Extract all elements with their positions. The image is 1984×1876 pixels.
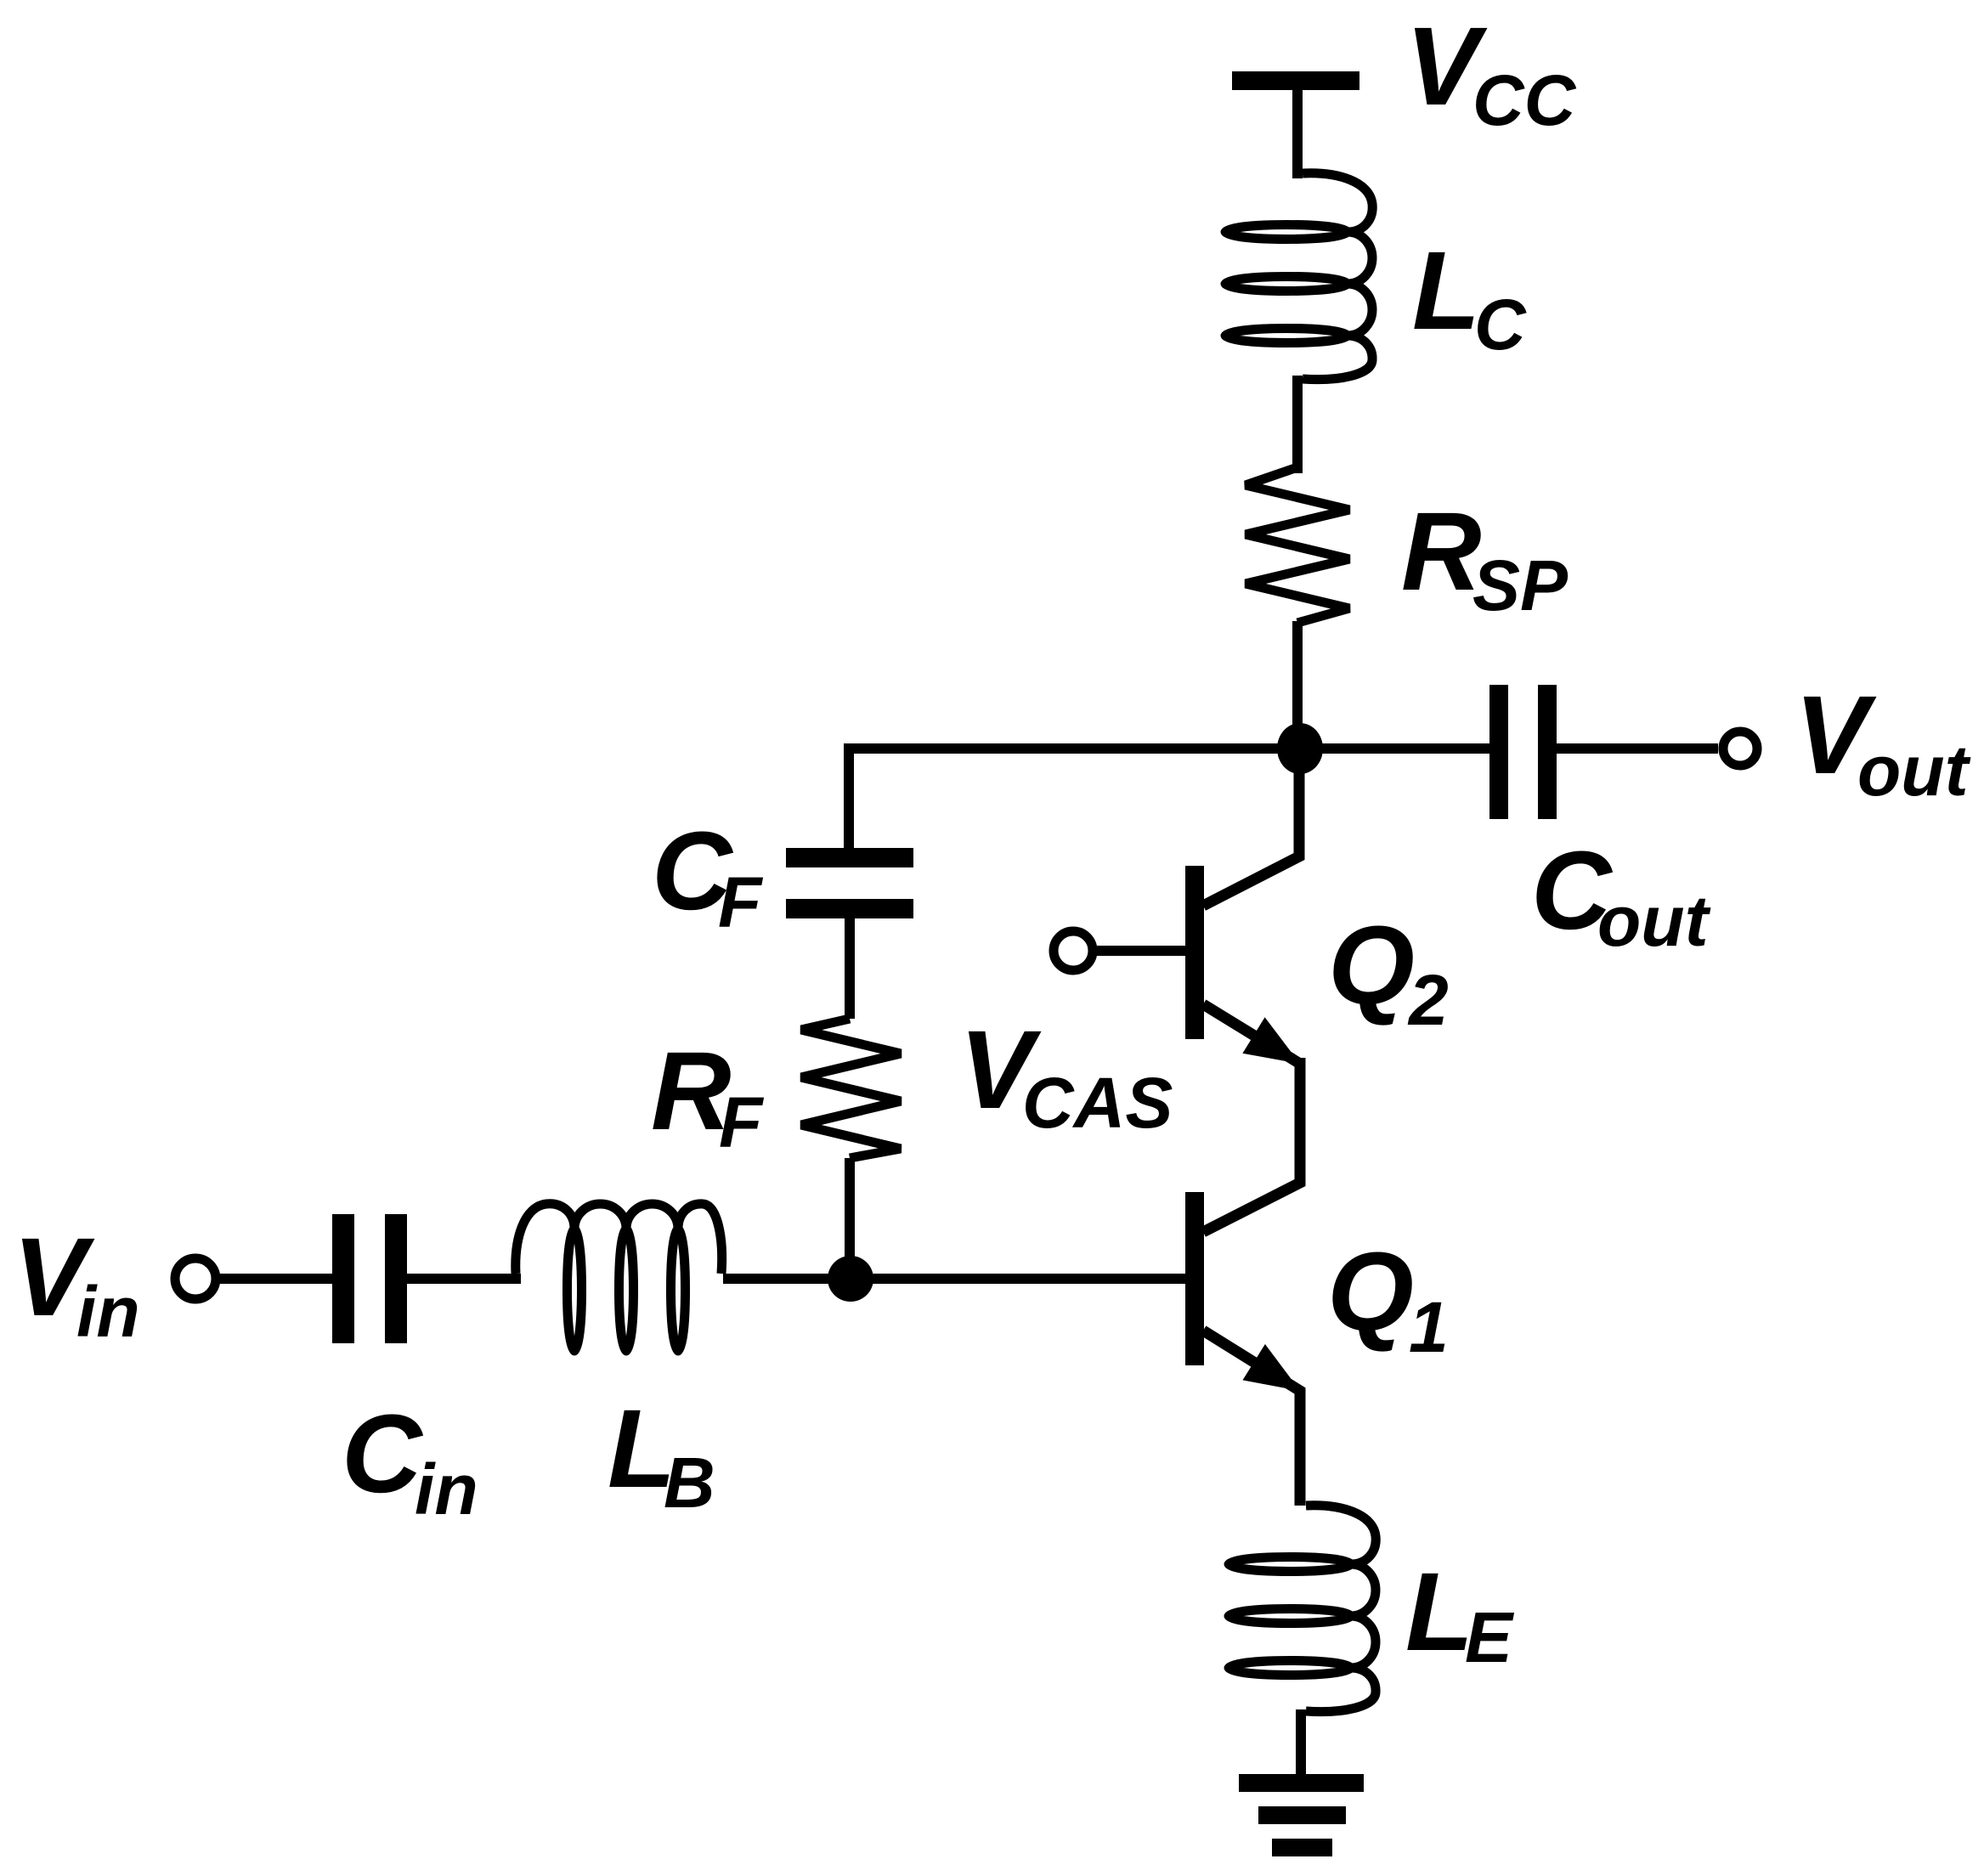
terminal VOUT: [1723, 732, 1757, 766]
svg-text:out: out: [1597, 881, 1711, 961]
svg-text:out: out: [1857, 731, 1971, 811]
svg-text:B: B: [664, 1443, 715, 1523]
capacitor CIN: [332, 1214, 407, 1343]
svg-text:F: F: [718, 862, 764, 942]
wire: [1292, 621, 1303, 749]
node: output junction: [1277, 723, 1323, 774]
resistor RF: [801, 1019, 901, 1158]
wire: [1296, 1709, 1306, 1776]
wire: [845, 918, 855, 1019]
inductor LE: [1229, 1506, 1376, 1712]
svg-text:CC: CC: [1472, 60, 1577, 140]
capacitor CF: [786, 848, 913, 918]
ground: [1239, 1774, 1364, 1856]
svg-text:F: F: [719, 1082, 765, 1162]
svg-text:in: in: [76, 1272, 140, 1352]
svg-text:Q: Q: [1328, 902, 1415, 1027]
wire: [1557, 743, 1718, 754]
svg-text:SP: SP: [1472, 545, 1569, 625]
capacitor COUT: [1489, 685, 1557, 819]
terminal VCAS: [1054, 931, 1093, 970]
svg-text:CAS: CAS: [1022, 1063, 1173, 1143]
wire: [1292, 88, 1303, 178]
svg-text:C: C: [1474, 285, 1527, 364]
svg-text:2: 2: [1407, 960, 1449, 1040]
inductor LC: [1225, 173, 1372, 380]
wire: [723, 1274, 1185, 1284]
terminal VIN: [175, 1258, 216, 1299]
svg-text:R: R: [1401, 489, 1482, 613]
svg-text:1: 1: [1409, 1287, 1449, 1367]
transistor Q2: [1185, 749, 1300, 1064]
svg-text:Q: Q: [1327, 1229, 1414, 1353]
wire: [845, 1158, 855, 1279]
svg-text:E: E: [1465, 1597, 1515, 1677]
wire: [218, 1274, 332, 1284]
svg-text:in: in: [415, 1449, 478, 1529]
node: input junction: [828, 1256, 873, 1302]
transistor Q1: [1185, 1058, 1300, 1506]
power rail VCC: [1232, 71, 1359, 90]
wire: [849, 749, 1489, 850]
svg-text:L: L: [1405, 1549, 1473, 1674]
wire: [407, 1274, 521, 1284]
svg-text:C: C: [342, 1391, 424, 1516]
wire: [1096, 946, 1185, 956]
wire: [1292, 376, 1303, 473]
inductor LB: [516, 1204, 722, 1351]
svg-text:L: L: [1412, 228, 1480, 353]
resistor RSP: [1246, 467, 1349, 623]
